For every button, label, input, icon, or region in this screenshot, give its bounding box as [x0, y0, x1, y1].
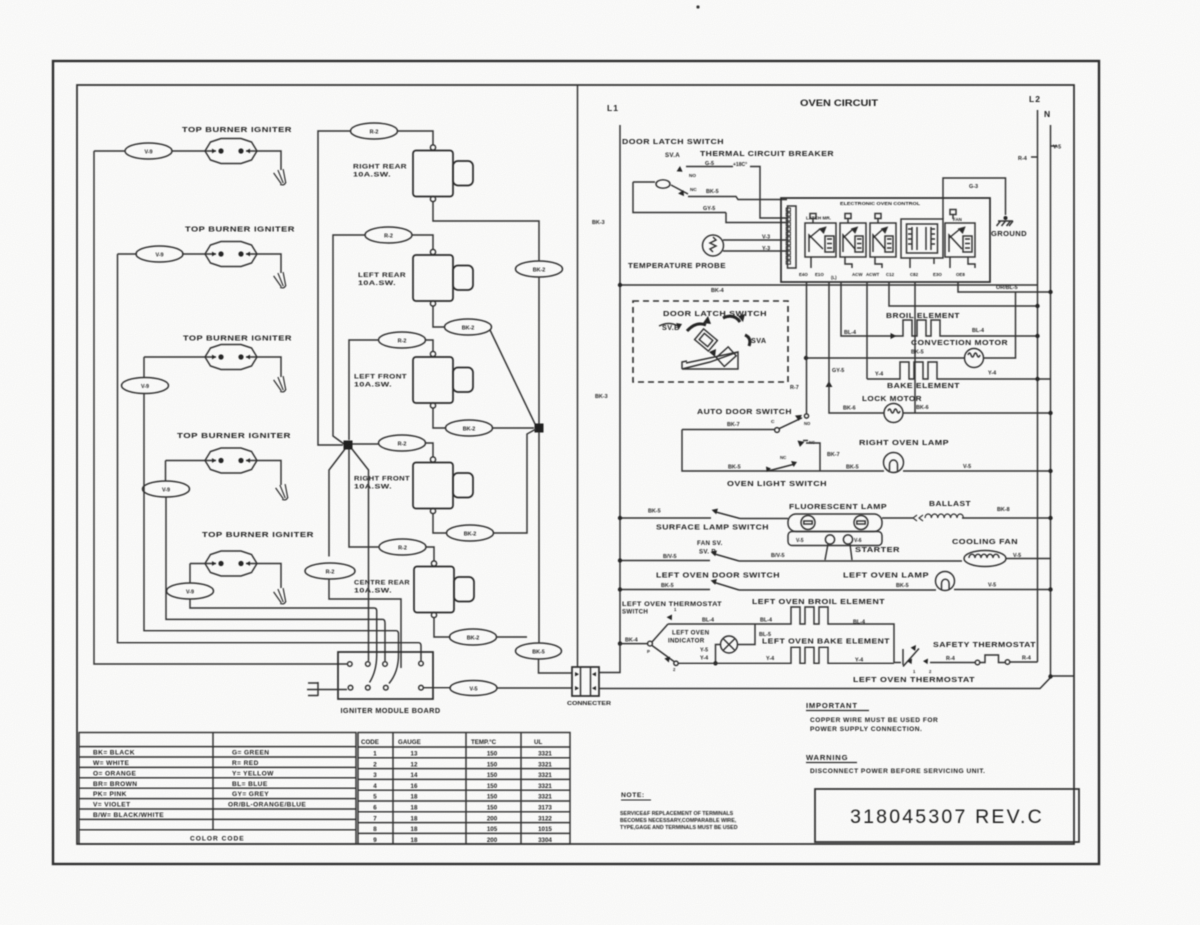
wire R-2 to left rear switch: [412, 235, 433, 249]
switch fan sv: [711, 551, 739, 562]
connector block: [572, 667, 599, 696]
connector V-9 (igniter4): [143, 481, 190, 497]
wire GY-5 to EOC: [726, 213, 787, 223]
node dot door rung on N: [1048, 587, 1052, 591]
transformer (EOC): [901, 219, 943, 258]
speck: [696, 5, 699, 8]
connector R-2 (left front feed): [379, 332, 426, 348]
connector BK-2 (left rear): [445, 319, 492, 335]
broil element: [841, 282, 1038, 336]
node dot N bottom: [1048, 674, 1052, 678]
wire right oven lamp rung: [682, 430, 1051, 472]
EOC pin strip: [786, 206, 796, 268]
wire lock motor row: [829, 282, 1051, 413]
part number box: [815, 789, 1079, 842]
connector V-9 (igniter3): [122, 378, 169, 394]
starter holder: [788, 532, 882, 561]
arrow before broil element: [891, 333, 897, 339]
wire bus igniter2 to module: [118, 254, 422, 661]
wire left oven broil row: [668, 607, 894, 663]
tick V-5 on N: [1051, 145, 1058, 147]
EOC internal wiring: [810, 210, 975, 269]
node dot R-7/conv: [804, 356, 808, 360]
wire BK-4 rung: [620, 284, 1038, 286]
wire gauge table: [358, 733, 570, 845]
junction B: [535, 424, 544, 433]
wire L2 bus: [1037, 110, 1039, 662]
wire L1 divider from frame top to connector: [577, 86, 579, 668]
connector R-2 (centre rear inline): [305, 563, 355, 579]
switch auto door: [771, 414, 815, 447]
chassis ground symbol: [997, 216, 1014, 226]
lamp right oven: [884, 453, 904, 473]
switch safety thermostat blade: [894, 645, 932, 674]
connector V-9 (igniter5): [167, 583, 214, 599]
wire V-3 probe to EOC: [723, 239, 787, 241]
wire Y-3 probe to EOC: [723, 250, 787, 252]
connector R-2 (left rear feed): [365, 227, 412, 243]
relay K1 (latch): [805, 223, 836, 257]
connector BK-2 (right rear): [516, 261, 563, 277]
node dot lamp rung on N: [1048, 469, 1052, 473]
cooling fan: [964, 551, 1006, 567]
wire junction B down to BK-5: [538, 432, 540, 644]
wire BK-5 to connector: [539, 659, 573, 673]
wire auto door NC to lamp rung: [806, 443, 820, 471]
important note: [620, 701, 985, 831]
wire G-3 ground loop: [943, 178, 1006, 219]
junction A: [344, 441, 353, 450]
wire L1 to thermostat switch: [620, 643, 648, 645]
EOC terminal labels: [799, 272, 965, 280]
wire row igniter5: [190, 564, 281, 589]
wire BK-2 centre rear to riser: [496, 636, 527, 638]
ground (igniter3): [273, 375, 289, 394]
node dot OR/BL-5 on N: [1048, 290, 1052, 294]
wire fluorescent rung: [620, 517, 1051, 520]
switch SV.A door latch: [633, 166, 726, 213]
connector BK-2 (centre rear): [450, 629, 497, 645]
fluorescent lamp tube: [788, 514, 882, 532]
igniter symbol 1: [205, 139, 257, 164]
connector V-5 (module board out): [424, 681, 573, 696]
tick R-4 on L2: [1031, 156, 1038, 158]
node dot bake on L2: [1035, 377, 1039, 381]
node dot lock motor on N: [1048, 411, 1052, 415]
node dot L1 fluorescent: [618, 516, 622, 520]
wire centre rear to BK-2: [434, 618, 451, 638]
connector BK-5: [516, 643, 562, 659]
lamp left oven: [936, 572, 955, 591]
igniter symbol 2: [205, 242, 257, 267]
wire bus igniter4 to module: [166, 497, 385, 662]
convection motor: [965, 349, 984, 368]
ground (igniter1): [273, 168, 289, 187]
relay K4 (fan): [945, 223, 975, 257]
relay K3: [870, 223, 896, 257]
contact circle bake row: [674, 661, 678, 665]
wire EOC drop to L2 row: [889, 282, 1038, 306]
wire row igniter1: [94, 151, 281, 170]
safety thermostat element: [930, 655, 1038, 665]
wire L1 bus: [619, 125, 621, 644]
node dot L1 fan sv: [618, 558, 622, 562]
electronic oven control box: [781, 198, 990, 282]
color code table: [79, 733, 356, 845]
node dot L1 thermostat: [618, 641, 622, 645]
igniter symbol 4: [205, 448, 257, 473]
wire L1 down to connector: [599, 644, 620, 673]
wire left rear to BK-2: [433, 306, 445, 327]
wire junction A down to R-2 inline: [329, 449, 345, 557]
switch CENTRE REAR 10A.SW.: [414, 561, 474, 618]
igniter symbol 3: [205, 345, 257, 370]
wire BK-2 to junction B: [493, 427, 535, 429]
wire left oven bake row: [678, 647, 894, 663]
switch RIGHT FRONT 10A.SW.: [413, 457, 473, 514]
switch RIGHT REAR 10A.SW.: [413, 145, 473, 202]
wire OR/BL-5 EOC to N: [958, 282, 1051, 292]
node dot ballast on N: [1048, 516, 1052, 520]
wire fan sv rung: [620, 559, 1051, 562]
switch surface lamp: [712, 509, 740, 519]
wire right front to BK-2: [433, 514, 447, 534]
connector BK-2 (right front): [447, 525, 494, 541]
wire left front to BK-2: [433, 408, 445, 428]
igniter symbol 5: [205, 551, 257, 576]
wire bus igniter3 to module: [144, 393, 399, 684]
wire BK-5 latch to EOC: [688, 197, 787, 200]
igniter module board: [338, 652, 433, 699]
ground fork (module board): [307, 682, 347, 696]
wire GY-5 EOC drop to bake row: [866, 282, 868, 379]
bake element: [867, 362, 1051, 379]
ground (igniter2): [273, 271, 289, 290]
wire indicator to bake row: [716, 645, 721, 664]
connector V-9 (igniter1): [125, 143, 172, 159]
wire row igniter3: [144, 357, 281, 378]
wire G-5 thermal breaker: [686, 167, 787, 219]
wire BK-2 diagonal to junction B: [490, 330, 536, 426]
wire BL-5 indicator to broil row: [738, 624, 756, 645]
node dot indicator/bake: [713, 661, 717, 665]
wire bus igniter1 to module: [94, 151, 347, 664]
wire R-2 inline to module board: [329, 579, 401, 668]
wire EOC transformer drop: [914, 282, 916, 413]
wire R-2 to right rear switch: [398, 131, 434, 145]
wire right rear to BK-2: [433, 202, 539, 262]
wire R-2 to left front switch: [426, 340, 434, 351]
node dot L1/BK-4: [618, 283, 622, 287]
connector V-9 (igniter2): [136, 246, 183, 262]
lock motor: [884, 404, 903, 423]
wire row igniter2: [118, 254, 282, 273]
switch oven light: [766, 455, 797, 472]
connector R-2 (right front feed): [379, 435, 426, 451]
temperature probe: [703, 235, 724, 256]
inner frame: [77, 85, 1074, 844]
switch LEFT REAR 10A.SW.: [413, 249, 473, 306]
wire R-2 left front feed down to junction A: [349, 340, 379, 440]
wire N bus: [1050, 125, 1052, 675]
ground (igniter5): [273, 587, 289, 606]
wire junction A down to centre rear R-2: [349, 449, 379, 547]
switch left oven thermostat (double throw): [647, 607, 677, 672]
indicator lamp: [721, 636, 738, 653]
wire bottom return rung: [599, 676, 1074, 689]
wire R-7 EOC to auto door switch: [806, 282, 808, 414]
wire R-2 to centre rear switch: [426, 547, 434, 561]
wire R-2 feed down to junction A: [318, 131, 351, 445]
outer frame: [53, 61, 1099, 864]
door latch switch SV.B dashed box: [633, 301, 788, 382]
wire BK-2 right front up to junction B: [494, 429, 537, 533]
wire junction A diagonal to bus riser: [352, 449, 369, 661]
switch left oven door: [711, 579, 739, 590]
ground (igniter4): [275, 483, 291, 502]
wire left oven door rung: [620, 589, 1051, 592]
switch LEFT FRONT 10A.SW.: [413, 351, 473, 408]
wire bus igniter5 to module: [190, 599, 377, 683]
node dot broil on L2: [1035, 334, 1039, 338]
wire R-2 left rear feed down to junction A: [333, 235, 365, 444]
wire convection motor row: [806, 292, 1016, 358]
door latch mechanism drawing: [659, 314, 750, 369]
wire auto door row: [682, 429, 774, 431]
wire BK-2 down to junction B: [538, 277, 540, 424]
node dot L1 door rung: [618, 587, 622, 591]
node dot on L2 (306): [1035, 304, 1039, 308]
arrow on lock feed wire: [826, 381, 833, 387]
connector BK-2 (left front): [446, 420, 493, 436]
wire junction A to R-2 right front: [353, 443, 434, 457]
relay K2: [840, 223, 866, 257]
connector R-2 (right rear feed): [351, 123, 398, 139]
ballast coil: [913, 514, 964, 521]
connector R-2 (centre rear feed): [379, 539, 426, 555]
wire row igniter4: [166, 461, 282, 486]
